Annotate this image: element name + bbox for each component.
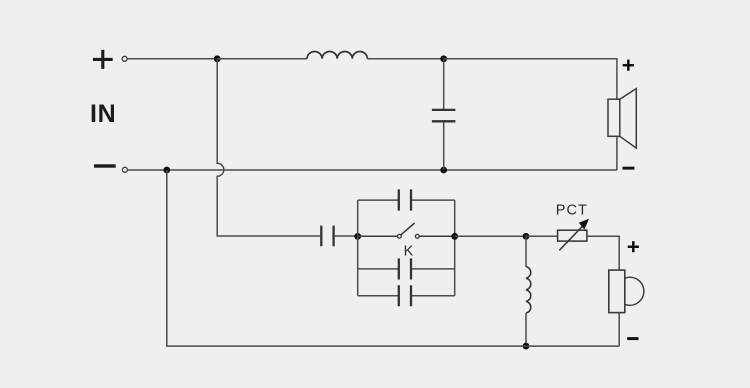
wire: capacitor C2 to node E (335, 235, 358, 237)
capacitor C1 top lead (443, 59, 445, 109)
wire: node B to woofer plus terminal (444, 59, 617, 99)
input - label (94, 164, 116, 167)
input + terminal (122, 56, 127, 61)
svg-text:K: K (404, 244, 414, 260)
switch network right rail wire (454, 200, 456, 296)
capacitor C1 (432, 110, 456, 121)
capacitor C4 (middle branch) (358, 258, 455, 279)
node D (440, 167, 447, 174)
svg-text:IN: IN (90, 100, 116, 128)
node F (451, 233, 458, 240)
switch network left rail wire (357, 200, 359, 296)
wire: node A to inductor L1 (217, 58, 307, 60)
node G (523, 233, 530, 240)
PCT thermistor RT1 (558, 219, 589, 251)
tweeter - label (627, 337, 638, 340)
svg-text:PCT: PCT (556, 203, 588, 219)
inductor L2 (shunt) (526, 236, 531, 346)
input + label (93, 50, 113, 69)
node H (523, 343, 530, 350)
wire: woofer minus terminal to minus rail (616, 136, 618, 170)
woofer + label (623, 60, 634, 71)
node E (354, 233, 361, 240)
minus rail wire (128, 169, 617, 171)
wire: + terminal to node A (127, 58, 217, 60)
woofer speaker LS1 (608, 89, 636, 149)
node C (163, 167, 170, 174)
woofer - label (623, 167, 635, 170)
capacitor C3 (top branch) (358, 189, 455, 210)
input - terminal (122, 167, 127, 172)
node A (214, 55, 221, 62)
tweeter + label (628, 241, 639, 252)
wire: node G to PCT (526, 235, 558, 237)
wire: node F to node G (455, 235, 526, 237)
wire: node A to capacitor C2 (hops over minus rail) (217, 59, 320, 236)
node B (440, 55, 447, 62)
bottom return wire (167, 170, 619, 346)
capacitor C1 bottom lead (443, 122, 445, 170)
tweeter speaker LS2 (609, 270, 644, 313)
wire: tweeter minus terminal to bottom rail (618, 313, 620, 347)
capacitor C5 (bottom branch) (358, 285, 455, 306)
wire: inductor L1 to node B (367, 58, 443, 60)
capacitor C2 (321, 226, 333, 247)
inductor L1 (307, 51, 367, 58)
switch K (358, 223, 455, 238)
wire: PCT to tweeter plus terminal (587, 236, 619, 270)
